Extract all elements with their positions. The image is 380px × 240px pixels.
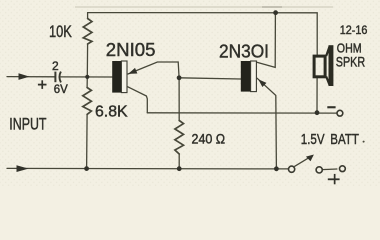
input arrow bottom [17, 165, 29, 172]
node top rail junction dot [273, 10, 278, 15]
wire 10K column top stub [87, 13, 89, 19]
transistor Q2 2N301 body bar [241, 61, 257, 92]
wire bias line cap to base [61, 76, 113, 78]
svg-text:240 Ω: 240 Ω [192, 131, 226, 147]
svg-text:6V: 6V [54, 83, 68, 96]
transistor Q2 2N301 emitter path to bottom rail [257, 78, 276, 168]
input arrow top [19, 73, 30, 80]
node bias junction dot [85, 75, 89, 79]
svg-text:10K: 10K [49, 23, 72, 41]
svg-text:2: 2 [52, 59, 59, 73]
node speaker bottom junction dot [315, 110, 320, 115]
wire common line y113 to battery minus [147, 112, 337, 114]
switch S1 arm arrowhead [306, 155, 314, 162]
wire junction down to 6.8K [86, 77, 88, 88]
bottom rail [7, 167, 288, 170]
speaker LS1 cone slants [326, 47, 329, 85]
transistor Q1 2N105 emitter path to Q2 base node [128, 62, 179, 78]
resistor R1 10K zigzag [83, 19, 92, 45]
capacitor plus sign [38, 80, 47, 89]
svg-text:2NI05: 2NI05 [106, 39, 156, 60]
node 6.8K bottom rail dot [84, 166, 89, 171]
transistor Q2 2N301 collector path to top rail [257, 13, 276, 68]
svg-text:INPUT: INPUT [9, 116, 46, 134]
node Q2 emitter bottom rail dot [274, 166, 279, 171]
wire 6.8K to bottom rail [86, 114, 89, 168]
switch arm [295, 156, 312, 166]
svg-text:12-16: 12-16 [340, 25, 368, 38]
wire 10K to junction [86, 44, 88, 77]
wire top input line [7, 76, 55, 78]
resistor R2 6.8K zigzag [83, 88, 92, 115]
resistor R3 240 ohm zigzag [175, 121, 184, 155]
capacitor C1 right curved plate [59, 72, 60, 83]
svg-text:1.5V BATT: 1.5V BATT [301, 130, 359, 147]
speaker LS1 driver box [314, 56, 325, 77]
node Q2 base junction dot [177, 75, 182, 80]
transistor Q1 emitter arrowhead [128, 68, 137, 74]
svg-text:SPKR: SPKR [336, 54, 365, 70]
wire 240 ohm column upper [178, 78, 180, 121]
top rail [88, 13, 318, 55]
faint scan ghost line top [75, 6, 333, 8]
wire Q2 base line [179, 78, 241, 79]
battery minus sign [327, 106, 335, 108]
period speck after BATT [363, 141, 365, 143]
speaker LS1 cone bar [329, 45, 334, 86]
transistor Q1 2N105 body bar [112, 61, 127, 93]
wire speaker bottom lead [316, 78, 318, 112]
svg-text:2N3OI: 2N3OI [219, 41, 269, 62]
battery plus terminal circle [340, 166, 346, 172]
transistor Q1 2N105 collector path [128, 87, 148, 113]
node 240 ohm bottom rail dot [177, 166, 182, 171]
capacitor C1 left plate [54, 72, 56, 83]
battery plus sign [328, 174, 340, 184]
wire switch link to plus terminal [322, 168, 337, 171]
switch S1 throw circle [316, 167, 322, 173]
transistor Q2 emitter arrowhead [258, 79, 266, 87]
battery minus terminal circle [337, 110, 343, 116]
svg-text:6.8K: 6.8K [95, 104, 128, 121]
switch S1 pole circle [289, 166, 295, 172]
wire 240 ohm to bottom rail [178, 154, 180, 169]
